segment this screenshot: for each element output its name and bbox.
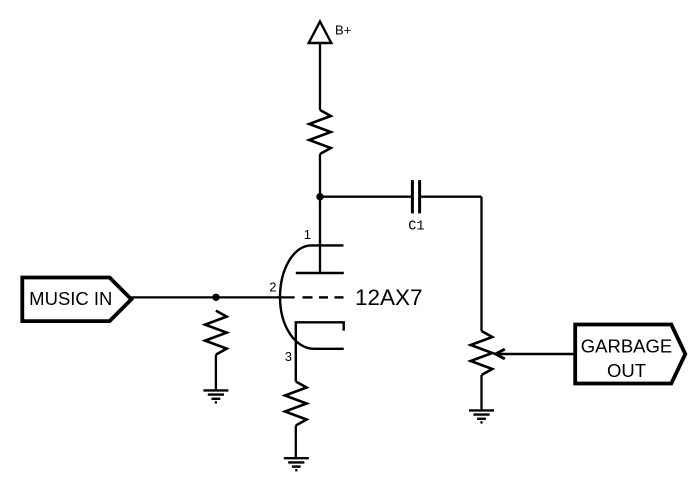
svg-text:1: 1: [304, 227, 311, 242]
svg-text:12AX7: 12AX7: [355, 285, 423, 310]
svg-text:MUSIC IN: MUSIC IN: [29, 288, 112, 309]
svg-text:3: 3: [285, 349, 292, 364]
svg-text:C1: C1: [408, 220, 424, 235]
svg-text:OUT: OUT: [607, 360, 646, 381]
svg-text:2: 2: [269, 280, 276, 295]
svg-text:B+: B+: [335, 22, 351, 37]
svg-text:GARBAGE: GARBAGE: [581, 336, 673, 357]
